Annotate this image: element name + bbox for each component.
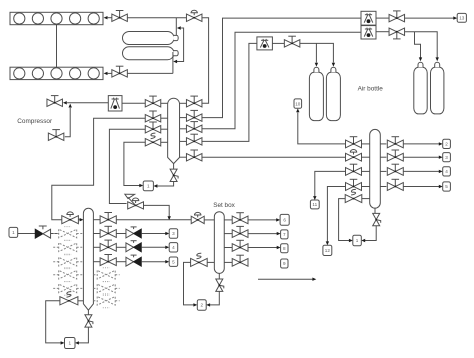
svg-text:5: 5 — [445, 184, 448, 189]
wire HX1-HX2 connector — [56, 25, 58, 67]
wire M4 right row1 to box — [403, 143, 439, 145]
dashed valve M2 left row3 — [59, 257, 77, 266]
svg-text:1: 1 — [147, 184, 150, 189]
wire R4 to manifold M1 left row1 — [122, 102, 145, 104]
wire HX1 to valve V1 — [108, 17, 112, 19]
svg-text:Set box: Set box — [213, 202, 235, 209]
box B13 — [323, 245, 332, 255]
wire M1 right row3 riser C to regulator R2 — [202, 32, 361, 129]
wire M4 bottom to vertical valve Vv4 — [374, 208, 376, 213]
svg-text:2: 2 — [445, 142, 448, 147]
air bottle RB1 — [414, 67, 427, 114]
wire M4 right row4 to box — [403, 186, 439, 188]
svg-text:2: 2 — [200, 303, 203, 308]
svg-text:8: 8 — [283, 246, 286, 251]
svg-text:Air bottle: Air bottle — [358, 86, 384, 93]
valve V4 — [389, 28, 405, 35]
valve M4 left row4 — [346, 183, 362, 191]
valve V3 — [389, 14, 405, 21]
wire M4 right row2 to box — [403, 156, 439, 158]
arrow into box B8 — [277, 232, 281, 235]
arrow into box B5 — [165, 260, 169, 263]
wire M1 right row2 riser B to regulator R1 — [202, 18, 361, 118]
arrow into outlet box 13 — [453, 16, 457, 19]
svg-text:Compressor: Compressor — [17, 118, 53, 125]
manifold column M4 — [370, 129, 381, 208]
dashed valve M2 right row6 — [97, 297, 115, 306]
wire V2 to riser A down to manifold M1 row1 — [202, 18, 209, 104]
wire box B11 riser to M4 row1 — [298, 113, 346, 144]
wire M1 L4 line and riser to box B1 — [124, 142, 145, 185]
arrow into box B4 — [165, 246, 169, 249]
relief valve V8 — [128, 202, 144, 209]
globe valve VG1 — [62, 216, 79, 224]
valve M1-R4 — [180, 140, 187, 142]
svg-text:11: 11 — [312, 202, 317, 207]
arrow up from compressor riser — [69, 104, 72, 108]
arrow down into box B13 — [326, 241, 329, 245]
wire M2 row3 to check valve — [116, 261, 126, 263]
arrow into bottle LB2 — [332, 63, 335, 67]
valve M3 right row2 — [224, 247, 232, 249]
inlet box B0 — [9, 227, 18, 237]
valve V5 — [284, 40, 300, 47]
flow direction arrow — [258, 278, 313, 280]
arrow into box B9 — [277, 246, 281, 249]
arrow into box B14 left — [349, 239, 353, 242]
check valve CV0 — [35, 229, 43, 238]
globe valve VG2 — [191, 216, 204, 223]
svg-text:4: 4 — [172, 245, 175, 250]
tank T2 — [123, 47, 175, 60]
wire M2 row1 to check valve — [116, 233, 126, 235]
valve V7 — [48, 133, 64, 140]
wire M2 row0 to globe VG2 and set box — [116, 219, 191, 221]
arrow down into row line — [168, 216, 171, 220]
wire M1 L2 line and riser to globe VG1 — [52, 118, 145, 220]
wire branch to left bottle LB1 — [315, 43, 317, 62]
svg-text:13: 13 — [459, 16, 465, 21]
box B17 — [443, 167, 451, 176]
wire R1 to valve V3 — [376, 17, 389, 19]
wire CV0 to dashed valve — [51, 233, 59, 235]
arrow into box B16 — [439, 156, 443, 159]
wire V4 to right air bottles — [405, 32, 437, 58]
wire M3 row0 to box B7 — [248, 219, 277, 221]
box B3 — [169, 229, 178, 238]
valve M1-R5 — [180, 156, 187, 158]
wire feeder from riser B183 — [176, 28, 183, 62]
svg-text:12: 12 — [325, 248, 331, 253]
box B1 — [143, 181, 153, 191]
wire tank T2 nozzle stub — [172, 52, 174, 56]
arrow up into box B11 — [296, 108, 299, 112]
wire B0 to check valve CV0 — [18, 233, 36, 235]
arrow into box B15 — [439, 142, 443, 145]
svg-text:1: 1 — [12, 230, 15, 235]
wire V8 to junction arrow — [144, 205, 170, 216]
valve M3 right row0 — [224, 219, 232, 221]
wire Vv3 to box B6 right — [210, 291, 220, 305]
wire M1 right row5 long line to manifold M4 row2 — [202, 156, 346, 158]
manifold column M3 — [214, 212, 224, 274]
arrow into box B2 left — [61, 341, 65, 344]
wire M3 bottom to vertical valve Vv3 — [218, 273, 220, 279]
box B2 — [65, 338, 76, 349]
wire CV2 to box — [141, 246, 166, 248]
wire V1b to tank riser — [127, 72, 172, 74]
valve M4 right row4 — [380, 186, 386, 188]
svg-text:4: 4 — [445, 169, 448, 174]
wire Vv1 to box B1 — [157, 182, 173, 187]
valve M4 left row1 — [346, 140, 362, 148]
valve M1-R3 — [180, 128, 187, 130]
box B12 — [310, 200, 319, 209]
svg-text:6: 6 — [283, 218, 286, 223]
valve M1-L2 — [145, 115, 161, 122]
check valve CV1 — [126, 229, 134, 238]
wire riser to tank T1 nozzle — [175, 18, 177, 36]
arrow into box B1 right — [154, 184, 158, 187]
arrow into box B7 — [276, 218, 280, 221]
box B14 — [353, 235, 362, 245]
tank T1 — [123, 32, 175, 45]
box B16 — [443, 153, 451, 162]
valve M4 left row3 — [346, 168, 362, 176]
box B7 — [280, 214, 289, 225]
dashed valve M2 right row5 — [97, 284, 115, 293]
svg-text:10: 10 — [295, 101, 301, 106]
wire Vv4 to box B14 right — [365, 226, 376, 241]
wire V3 to outlet box — [405, 17, 454, 19]
wire V11 to box B14 left — [339, 199, 350, 241]
wire M2 row2 to check valve — [116, 246, 126, 248]
wire tank T2 nozzle drop to HX2 line — [172, 56, 174, 74]
wire M4 row4 to box B13 — [327, 187, 345, 242]
heat exchanger HX2 — [10, 67, 103, 79]
wire M4 right row3 to box — [403, 170, 439, 172]
arrow into box B14 right — [361, 239, 365, 242]
svg-text:1: 1 — [68, 341, 71, 346]
arrow into box B17 — [439, 170, 443, 173]
valve M2 right row3 — [93, 261, 100, 263]
regulator R1 — [361, 11, 376, 25]
dashed valve M2 left row1 — [59, 229, 77, 238]
dashed valve M2 right row4 — [97, 270, 115, 279]
box B15 — [443, 139, 451, 148]
valve M2 right row1 — [93, 233, 100, 235]
wire M4 row3 to box B12 — [315, 171, 346, 196]
regulator R4 — [108, 96, 122, 111]
valve V2 (globe) — [186, 14, 202, 21]
arrow into V6 — [63, 101, 67, 104]
valve M1-L1 — [145, 100, 161, 107]
valve M4 right row1 — [380, 143, 386, 145]
manifold column M1 — [168, 98, 180, 163]
spring valve V9 M2 left bottom — [60, 297, 78, 305]
svg-text:3: 3 — [445, 155, 448, 160]
vertical valve Vv4 — [373, 213, 380, 219]
valve V6 — [47, 99, 63, 106]
box B9 — [281, 244, 288, 253]
wire HX2 to valve V1b — [108, 72, 112, 74]
outlet box 13 — [457, 13, 466, 22]
valve M4 left row2 — [346, 153, 362, 161]
wire V9 to box B2 left — [46, 301, 61, 343]
arrow into HX1 — [104, 16, 108, 19]
arrow into box B3 — [165, 232, 169, 235]
svg-text:3: 3 — [172, 231, 175, 236]
valve M4 right row2 — [380, 156, 386, 158]
dashed valve M2 left row2 — [59, 243, 77, 252]
wire M2 bottom to vertical valve Vv2 — [87, 310, 89, 315]
box B10 standalone — [281, 259, 288, 268]
arrow into box B6 left — [193, 303, 197, 306]
arrow into box B2 right — [75, 341, 79, 344]
arrow feeder junction at tank T1 — [177, 26, 181, 29]
svg-text:9: 9 — [283, 261, 286, 266]
check valve CV3 — [126, 257, 134, 266]
vertical valve Vv1 — [170, 169, 177, 175]
air bottle LB1 — [309, 72, 323, 120]
box B18 — [443, 182, 451, 191]
wire V1 to V2 — [127, 17, 186, 19]
wire V5 to left air bottles — [300, 43, 334, 62]
check valve CV2 — [126, 243, 134, 252]
valve M2 right row2 — [93, 246, 100, 248]
box B11 — [294, 99, 302, 108]
svg-text:5: 5 — [172, 259, 175, 264]
arrow into M2 from VG1 — [80, 218, 84, 221]
valve M1-L4 (spring) — [145, 139, 161, 146]
valve M3 right row3 — [224, 261, 232, 263]
wire R2 to valve V4 — [376, 31, 389, 33]
regulator R3 — [257, 37, 273, 50]
box B6 — [197, 300, 206, 311]
arrow into HX2 — [104, 72, 108, 75]
vertical valve Vv3 — [216, 279, 223, 285]
air bottle LB2 — [326, 72, 340, 120]
wire M1 L3 line and riser to relief valve V8 — [109, 129, 145, 203]
wire compressor riser — [65, 108, 70, 137]
vertical valve Vv2 — [85, 315, 92, 321]
wire V6 junction to regulator R4 — [67, 102, 108, 104]
arrow into bottle RB1 — [419, 57, 422, 61]
valve M3 right row1 — [224, 233, 232, 235]
valve M1-L3 — [145, 126, 161, 133]
valve M1-R1 — [180, 102, 187, 104]
wire Vv2 to box B2 — [79, 327, 89, 343]
box B8 — [281, 230, 288, 239]
wire branch to right bottle RB1 — [415, 32, 421, 58]
spring valve V11 M4 left bottom — [345, 195, 362, 203]
arrow feeder into tank T2 drop — [173, 60, 177, 63]
wire CV1 to box — [141, 233, 166, 235]
valve M4 right row3 — [380, 170, 386, 172]
heat exchanger HX1 — [10, 12, 103, 24]
arrow into box B18 — [439, 185, 443, 188]
valve V1 — [112, 14, 128, 21]
wire CV3 to box — [141, 261, 166, 263]
svg-text:7: 7 — [283, 232, 286, 237]
wire V10 to box B6 left — [184, 262, 194, 305]
box B4 — [169, 243, 178, 252]
svg-text:1: 1 — [356, 238, 359, 243]
valve M2 right row0 — [93, 219, 100, 221]
wire M3 row1 to box B8 — [248, 233, 277, 235]
air bottle RB2 — [431, 67, 444, 114]
dashed valve M2 left row4 — [59, 270, 77, 279]
valve M1-R2 — [180, 117, 187, 119]
box B5 — [169, 257, 178, 266]
arrow into box B6 right — [206, 303, 210, 306]
wire M1 right row4 riser D to regulator R3 — [202, 43, 257, 141]
wire M3 row2 to box B9 — [248, 247, 277, 249]
valve V1b — [112, 70, 128, 77]
wire R3 to valve V5 — [272, 42, 284, 44]
dashed valve M2 left row5 — [59, 284, 77, 293]
arrow into box B1 left — [139, 184, 143, 187]
regulator R2 — [361, 26, 376, 39]
arrow down into box B12 — [313, 196, 316, 200]
manifold column M2 — [83, 208, 93, 310]
arrow into bottle LB1 — [315, 63, 318, 67]
arrow into bottle RB2 — [436, 57, 439, 61]
spring valve V10 M3 left — [191, 258, 208, 266]
wire M1 bottom to vertical valve Vv1 — [173, 164, 175, 170]
